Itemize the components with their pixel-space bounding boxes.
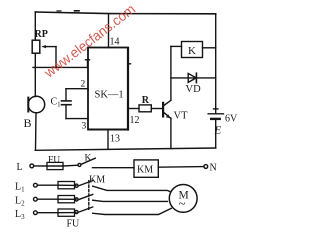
wire L to fuse <box>34 165 47 167</box>
wire emitter to bottom rail <box>170 118 172 148</box>
svg-text:L2: L2 <box>15 196 25 208</box>
svg-text:2: 2 <box>81 80 86 90</box>
potentiometer RP <box>32 40 56 67</box>
svg-text:L3: L3 <box>15 209 25 221</box>
svg-text:L: L <box>17 162 23 173</box>
svg-text:KM: KM <box>137 165 153 176</box>
resistor R <box>139 105 162 112</box>
svg-text:N: N <box>210 163 217 174</box>
svg-text:3: 3 <box>82 122 87 132</box>
pin 3 wire <box>66 118 88 120</box>
transistor VT <box>162 100 171 118</box>
wire bottom rail <box>35 148 215 150</box>
fuse FU (control) <box>47 162 78 169</box>
contactor linkage dashed <box>88 181 90 211</box>
wire top supply rail <box>35 12 215 14</box>
capacitor C1 <box>62 89 72 119</box>
relay contact K <box>78 158 134 168</box>
node L terminal <box>30 164 34 168</box>
scan speck top rail <box>75 10 80 12</box>
wire pot bottom to mic <box>34 53 36 96</box>
contact KM1 <box>75 181 170 192</box>
wire L1 <box>37 184 58 186</box>
svg-text:FU: FU <box>48 155 60 165</box>
svg-text:VT: VT <box>174 111 189 122</box>
svg-text:SK—1: SK—1 <box>95 90 124 101</box>
wire KM to N <box>158 166 204 169</box>
pin 13 wire <box>107 130 109 150</box>
pin 14 wire <box>108 14 110 48</box>
pin 2 wire <box>66 88 88 90</box>
pin tick right edge <box>128 63 131 65</box>
fuse FU3 <box>58 209 76 216</box>
svg-text:14: 14 <box>110 37 120 48</box>
node L2 terminal <box>34 197 38 201</box>
svg-text:6V: 6V <box>225 114 238 125</box>
contactor coil KM <box>134 160 158 177</box>
contact KM2 <box>75 194 167 201</box>
fuse FU2 <box>58 196 76 203</box>
wire L2 <box>37 198 58 200</box>
svg-text:K: K <box>85 154 92 164</box>
node L1 terminal <box>34 183 38 187</box>
svg-text:B: B <box>24 116 32 130</box>
wire left supply rail <box>34 12 36 40</box>
svg-text:~: ~ <box>179 196 186 211</box>
wire node to SK pin1 <box>33 60 90 68</box>
fuse FU1 <box>58 182 76 189</box>
microphone B <box>28 96 45 113</box>
IC U1 SK-1 <box>88 48 128 130</box>
battery E <box>208 109 223 148</box>
wire right supply rail <box>215 14 217 114</box>
relay coil K <box>171 42 216 58</box>
svg-text:VD: VD <box>186 84 202 95</box>
svg-text:12: 12 <box>130 115 140 126</box>
svg-text:K: K <box>188 45 196 57</box>
svg-text:L1: L1 <box>15 182 25 194</box>
scan speck top rail 2 <box>57 10 61 12</box>
pin 12 wire <box>128 108 139 110</box>
diode VD <box>171 73 216 82</box>
svg-text:C1: C1 <box>51 97 62 109</box>
node L3 terminal <box>34 211 38 215</box>
svg-text:E: E <box>214 125 222 137</box>
svg-text:FU: FU <box>67 219 81 230</box>
svg-text:R: R <box>142 95 150 106</box>
svg-text:13: 13 <box>110 134 120 145</box>
node N terminal <box>204 165 208 169</box>
svg-text:RP: RP <box>35 29 48 40</box>
contact KM3 <box>75 207 171 215</box>
wire L3 <box>37 212 58 214</box>
motor M <box>169 185 197 213</box>
wire collector up to node <box>170 46 172 100</box>
svg-text:KM: KM <box>89 175 105 186</box>
wire mic to bottom rail <box>35 113 38 150</box>
